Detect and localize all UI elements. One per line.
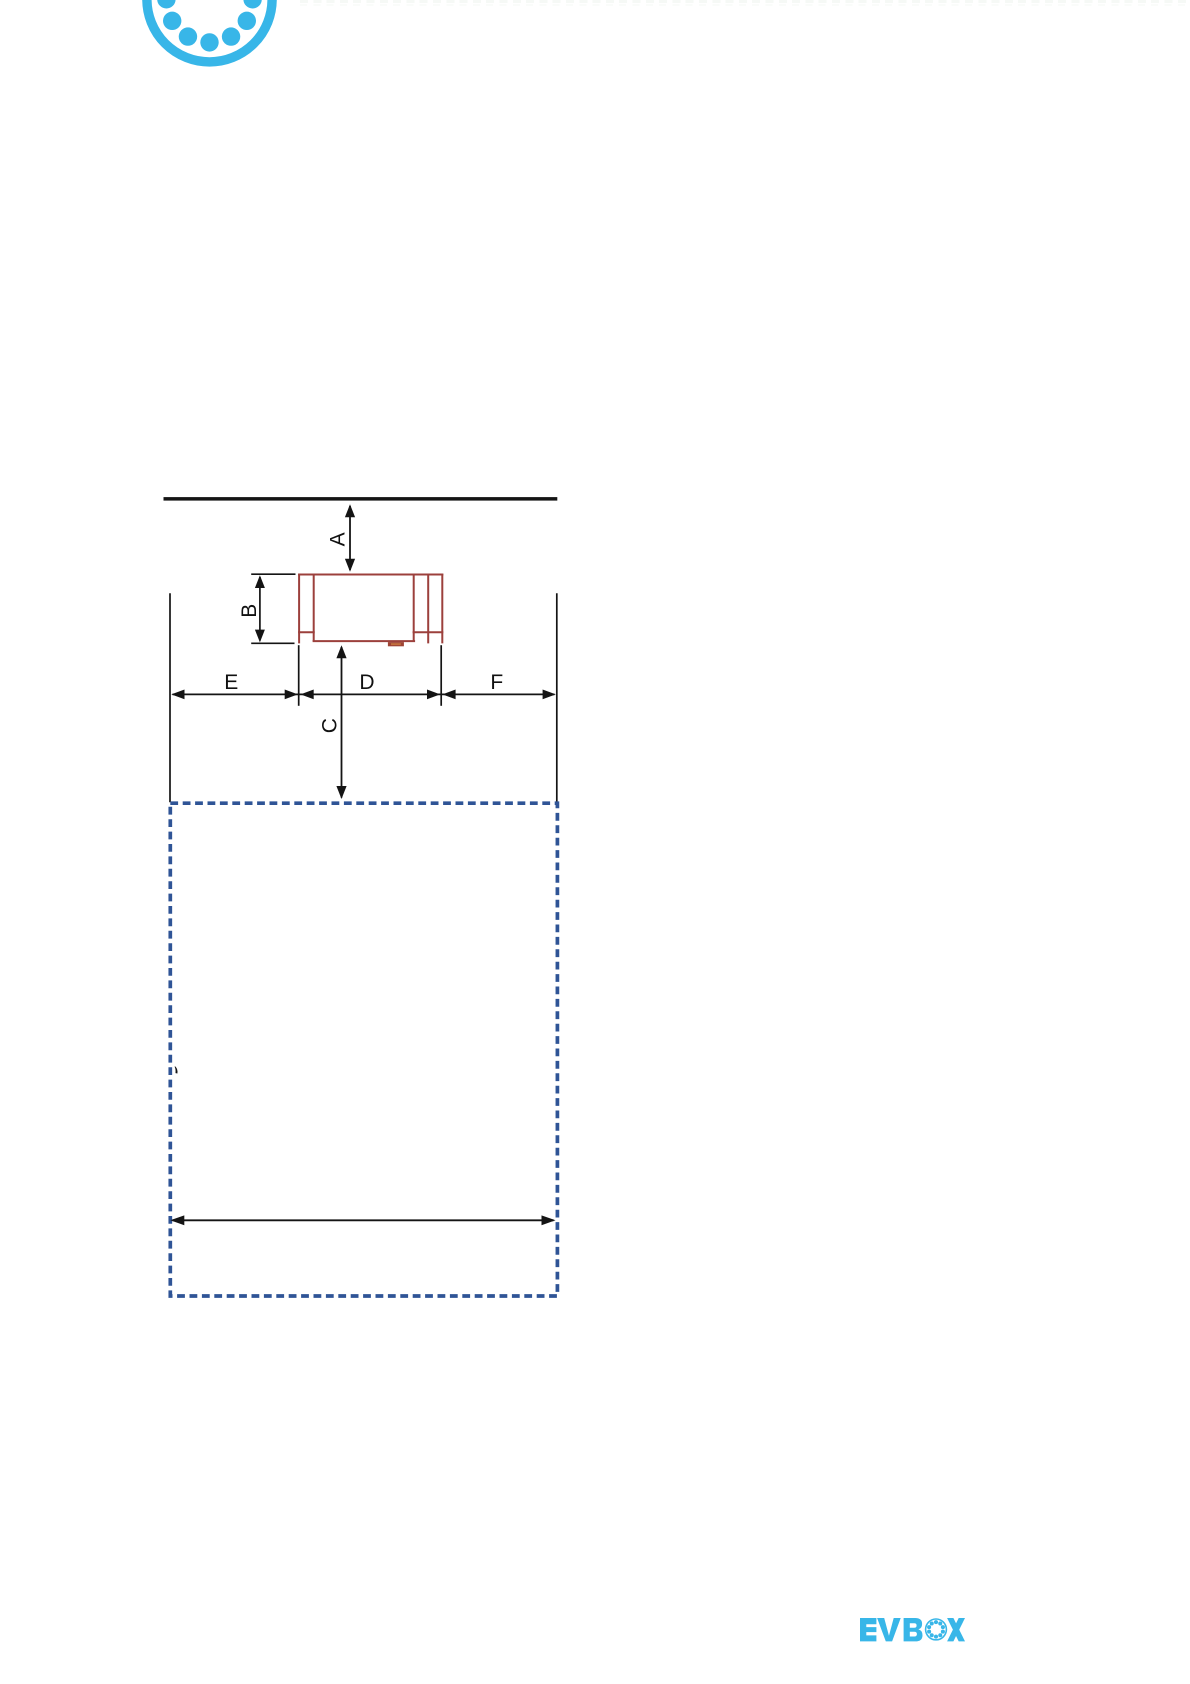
svg-text:E: E bbox=[224, 671, 238, 694]
svg-text:A: A bbox=[326, 532, 349, 546]
svg-text:F: F bbox=[490, 671, 503, 694]
svg-text:C: C bbox=[318, 718, 341, 733]
svg-text:B: B bbox=[238, 604, 261, 618]
svg-text:D: D bbox=[359, 671, 374, 694]
